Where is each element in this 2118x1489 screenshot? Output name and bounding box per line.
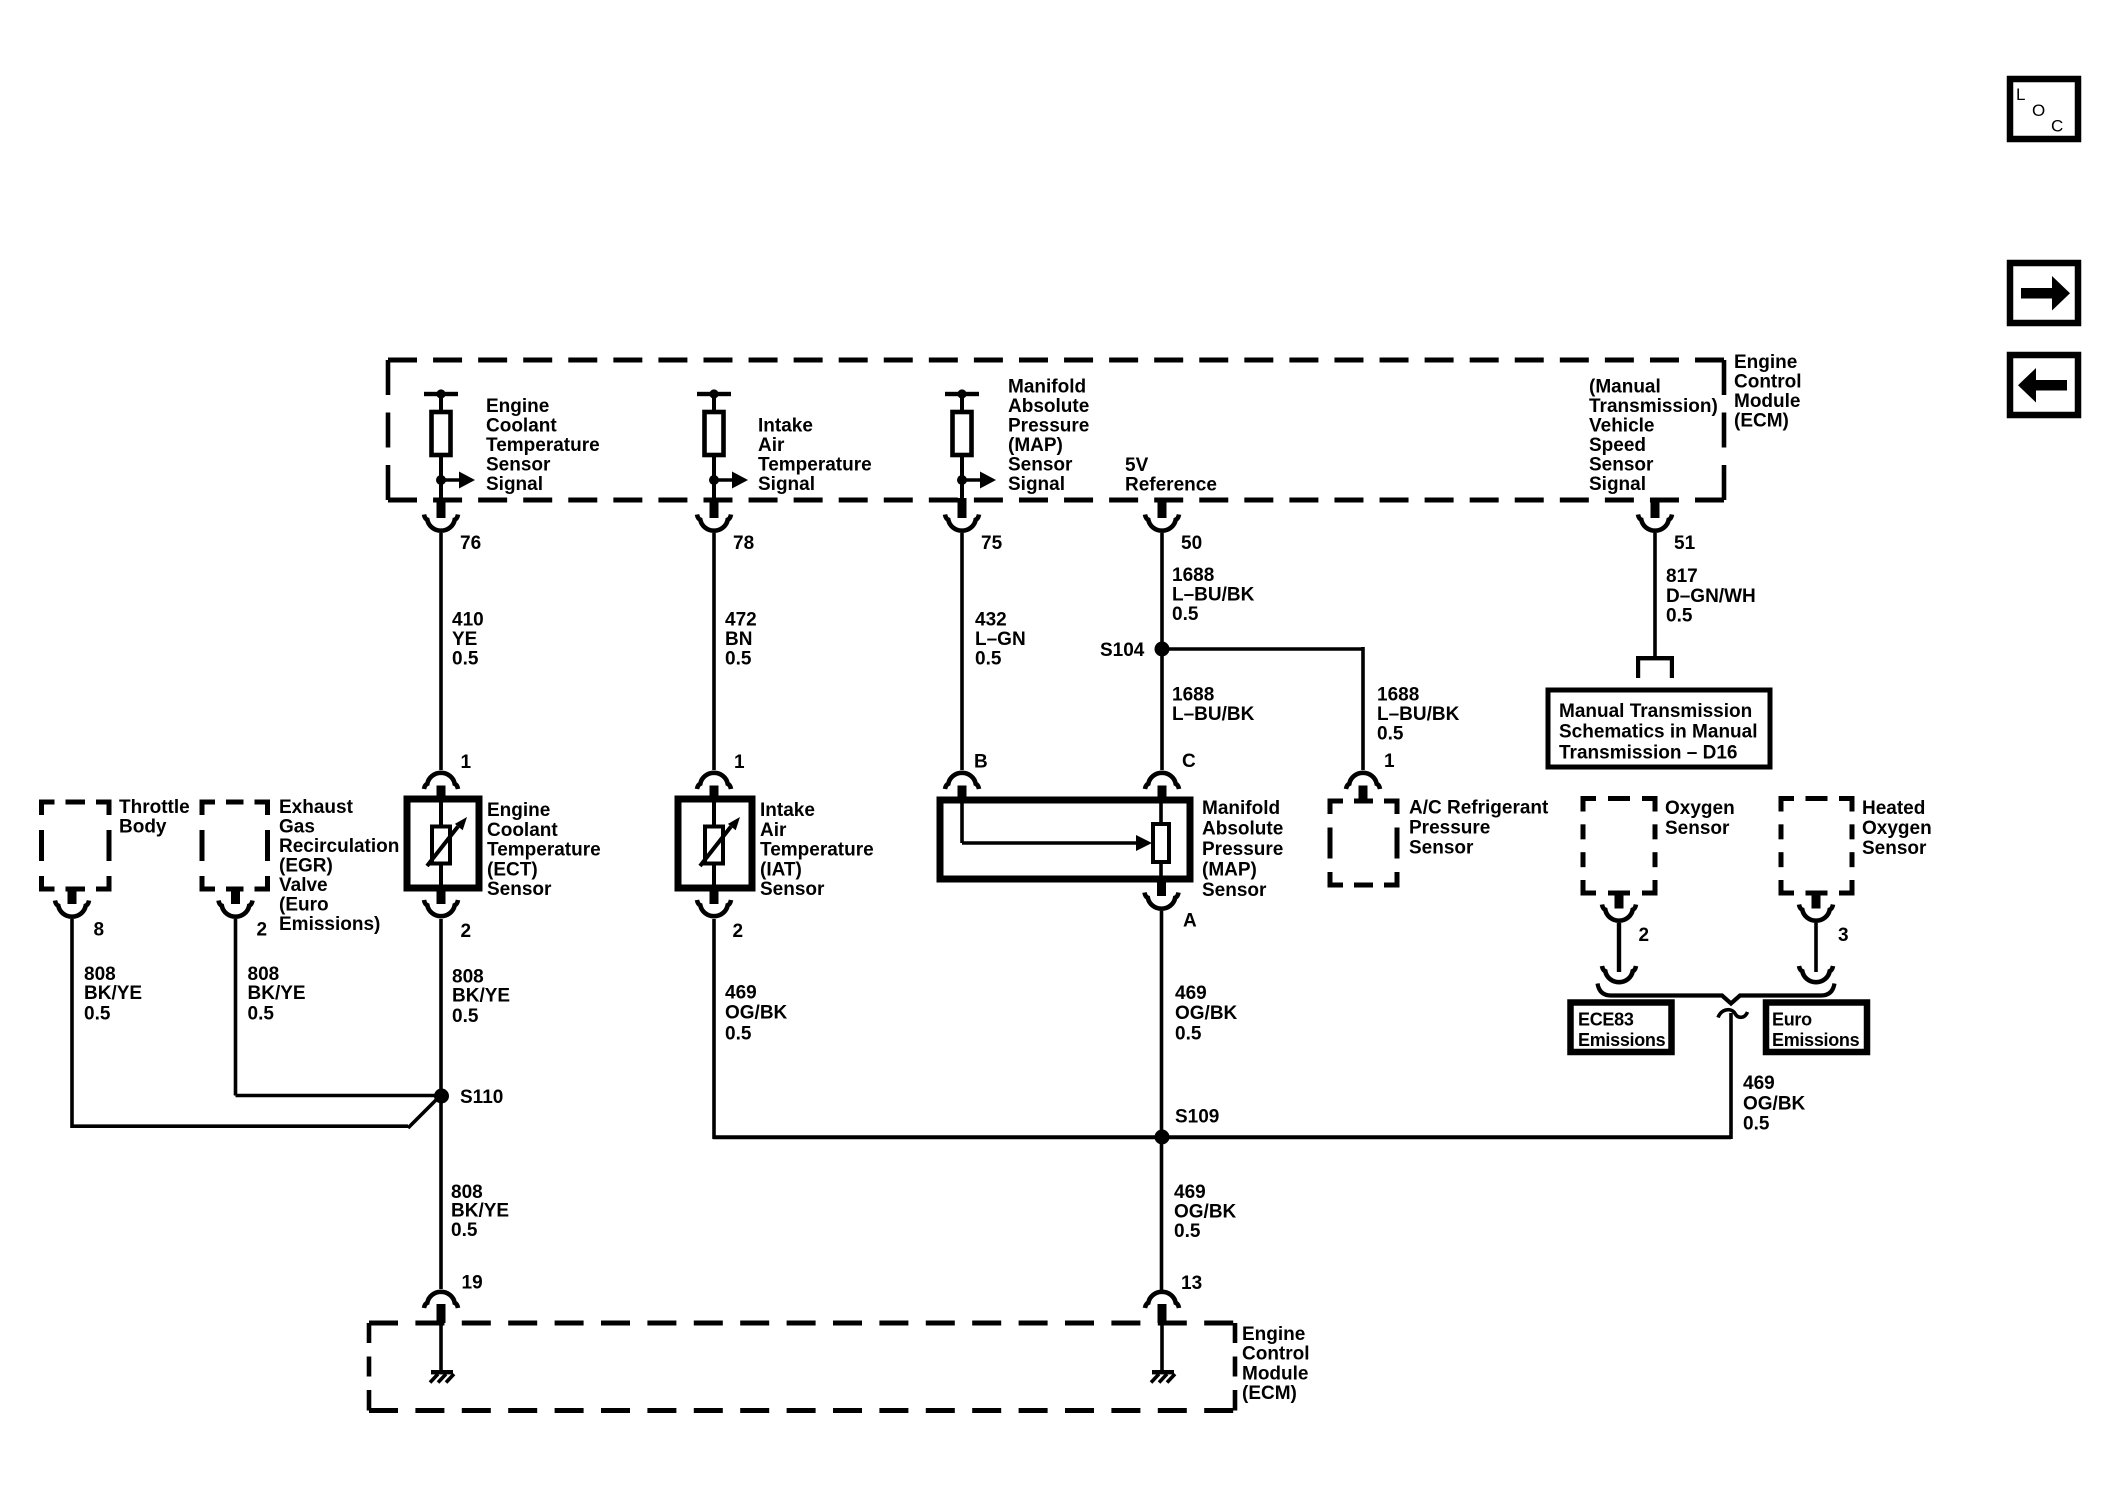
svg-text:Engine: Engine <box>487 800 550 821</box>
ECT sensor box <box>407 799 479 888</box>
ECM connector pin 76 <box>437 498 446 518</box>
heated oxygen sensor dashed box <box>1781 799 1794 812</box>
svg-text:Body: Body <box>119 817 167 838</box>
svg-text:0.5: 0.5 <box>1172 604 1199 625</box>
svg-text:Pressure: Pressure <box>1202 839 1283 860</box>
svg-text:0.5: 0.5 <box>452 1006 479 1027</box>
svg-text:C: C <box>1182 751 1196 772</box>
svg-text:Intake: Intake <box>760 800 815 821</box>
svg-text:Control: Control <box>1734 372 1802 393</box>
IAT connector pin 2 <box>710 888 719 904</box>
svg-text:Sensor: Sensor <box>1589 455 1654 476</box>
svg-text:0.5: 0.5 <box>725 1024 752 1045</box>
svg-text:Sensor: Sensor <box>1409 838 1474 859</box>
svg-text:0.5: 0.5 <box>248 1004 275 1025</box>
svg-text:Sensor: Sensor <box>1202 880 1267 901</box>
svg-text:469: 469 <box>1175 983 1207 1004</box>
wire 1688 L-BU/BK (pin 50 to S104) <box>1160 533 1164 770</box>
throttle body dashed box <box>42 802 55 815</box>
MAP signal resistor <box>945 389 996 498</box>
svg-text:0.5: 0.5 <box>451 1220 478 1241</box>
ground symbol left <box>430 1370 454 1383</box>
svg-text:Recirculation: Recirculation <box>279 836 399 857</box>
harness fork to manual transmission <box>1636 656 1674 660</box>
svg-text:0.5: 0.5 <box>1743 1114 1770 1135</box>
ECE83 emissions box <box>1571 1003 1672 1053</box>
ECM connector pin 51 <box>1651 498 1660 518</box>
svg-text:Emissions): Emissions) <box>279 914 380 935</box>
svg-text:Emissions: Emissions <box>1772 1030 1860 1050</box>
emissions option brace <box>1598 984 1835 1004</box>
svg-text:Reference: Reference <box>1125 475 1217 496</box>
wire 817 D-GN/WH (pin 51) <box>1653 533 1657 658</box>
svg-text:0.5: 0.5 <box>452 649 479 670</box>
wire 469 OG/BK bus S109 <box>713 1135 1731 1139</box>
wire 432 L-GN (pin 75 to MAP B) <box>960 533 964 770</box>
Euro emissions box <box>1766 1003 1867 1053</box>
svg-text:808: 808 <box>84 964 116 985</box>
A/C refrigerant pressure sensor dashed box <box>1330 801 1343 814</box>
sensor connector pin 1 x714 <box>697 773 731 789</box>
sensor connector pin 1 x1363 <box>1346 773 1380 789</box>
svg-text:5V: 5V <box>1125 455 1149 476</box>
svg-text:Oxygen: Oxygen <box>1862 818 1932 839</box>
svg-text:469: 469 <box>1743 1073 1775 1094</box>
svg-text:BN: BN <box>725 629 752 650</box>
MAP sensor box <box>940 800 1190 879</box>
svg-text:Absolute: Absolute <box>1202 819 1283 840</box>
svg-text:Valve: Valve <box>279 875 328 896</box>
svg-text:C: C <box>2051 117 2063 136</box>
ground wire pin 13 <box>1160 1323 1164 1370</box>
svg-text:Sensor: Sensor <box>1008 455 1073 476</box>
svg-text:Temperature: Temperature <box>760 840 874 861</box>
svg-text:ECE83: ECE83 <box>1578 1010 1634 1030</box>
wire S104 branch to A/C sensor <box>1160 647 1363 651</box>
svg-text:Module: Module <box>1734 391 1801 412</box>
back arrow box <box>2010 355 2078 415</box>
wire 410 YE (pin 76 to ECT) <box>439 533 443 770</box>
splice S109 <box>1155 1130 1170 1145</box>
svg-text:3: 3 <box>1838 925 1849 946</box>
wire 808 BK/YE from ECT <box>439 919 443 1289</box>
wire from heated oxygen sensor pin 3 <box>1814 923 1818 972</box>
svg-text:1688: 1688 <box>1172 685 1214 706</box>
forward arrow box <box>2010 263 2078 323</box>
svg-text:A: A <box>1183 911 1197 932</box>
sensor connector pin C x1162 <box>1145 773 1179 789</box>
svg-text:2: 2 <box>461 921 472 942</box>
svg-text:BK/YE: BK/YE <box>451 1201 509 1222</box>
EGR connector pin 2 <box>231 889 240 904</box>
svg-text:BK/YE: BK/YE <box>452 986 510 1007</box>
svg-text:OG/BK: OG/BK <box>1743 1094 1806 1115</box>
sensor connector pin B x962 <box>945 773 979 789</box>
svg-text:1688: 1688 <box>1377 685 1419 706</box>
svg-text:Schematics in Manual: Schematics in Manual <box>1559 722 1758 743</box>
sensor connector pin 1 x441 <box>424 773 458 789</box>
svg-text:Signal: Signal <box>758 474 815 495</box>
wire 469 OG/BK from IAT <box>712 919 716 1139</box>
svg-text:0.5: 0.5 <box>1174 1221 1201 1242</box>
svg-text:YE: YE <box>452 629 477 650</box>
svg-text:Intake: Intake <box>758 416 813 437</box>
svg-text:Signal: Signal <box>1589 474 1646 495</box>
svg-text:Engine: Engine <box>486 396 549 417</box>
svg-text:469: 469 <box>725 983 757 1004</box>
svg-text:75: 75 <box>981 533 1003 554</box>
ECT connector pin 2 <box>437 888 446 904</box>
svg-text:76: 76 <box>460 533 481 554</box>
svg-text:2: 2 <box>733 921 744 942</box>
svg-text:Throttle: Throttle <box>119 797 190 818</box>
svg-text:Transmission): Transmission) <box>1589 396 1718 417</box>
svg-text:469: 469 <box>1174 1182 1206 1203</box>
svg-text:Pressure: Pressure <box>1008 416 1089 437</box>
svg-text:Engine: Engine <box>1242 1324 1305 1345</box>
svg-text:Sensor: Sensor <box>487 879 552 900</box>
svg-text:Temperature: Temperature <box>758 455 872 476</box>
oxygen sensor dashed box <box>1583 799 1596 812</box>
ECM connector pin 50 <box>1158 498 1167 518</box>
svg-text:L–BU/BK: L–BU/BK <box>1172 704 1255 725</box>
svg-text:Coolant: Coolant <box>487 820 558 841</box>
svg-text:(IAT): (IAT) <box>760 860 802 881</box>
svg-text:A/C Refrigerant: A/C Refrigerant <box>1409 798 1549 819</box>
svg-text:(MAP): (MAP) <box>1202 860 1257 881</box>
manual transmission reference box <box>1548 690 1770 767</box>
svg-text:Sensor: Sensor <box>486 455 551 476</box>
svg-text:0.5: 0.5 <box>1377 724 1404 745</box>
svg-text:(MAP): (MAP) <box>1008 435 1063 456</box>
wire 469 OG/BK from MAP pin A <box>1160 911 1164 1291</box>
ground wire pin 19 <box>439 1323 443 1370</box>
svg-text:B: B <box>974 752 988 773</box>
svg-text:Pressure: Pressure <box>1409 818 1490 839</box>
svg-text:Engine: Engine <box>1734 352 1797 373</box>
oxygen sensor connector pin 2 <box>1615 893 1624 909</box>
IAT sensor box <box>678 799 752 888</box>
svg-text:O: O <box>2032 101 2045 120</box>
svg-text:Air: Air <box>758 435 785 456</box>
splice S110 <box>434 1089 449 1104</box>
heated oxygen sensor connector pin 3 <box>1812 893 1821 909</box>
svg-text:Absolute: Absolute <box>1008 396 1089 417</box>
svg-text:472: 472 <box>725 610 757 631</box>
svg-text:Control: Control <box>1242 1344 1310 1365</box>
svg-text:Heated: Heated <box>1862 798 1925 819</box>
svg-text:2: 2 <box>1639 925 1650 946</box>
svg-text:Emissions: Emissions <box>1578 1030 1666 1050</box>
svg-text:Sensor: Sensor <box>760 879 825 900</box>
svg-text:L–BU/BK: L–BU/BK <box>1172 585 1255 606</box>
svg-text:1: 1 <box>461 752 472 773</box>
svg-text:50: 50 <box>1181 533 1202 554</box>
option squiggle <box>1718 1010 1748 1018</box>
svg-text:19: 19 <box>462 1273 483 1294</box>
MAP sensor internals <box>960 803 964 843</box>
svg-text:(Manual: (Manual <box>1589 377 1661 398</box>
wire 472 BN (pin 78 to IAT) <box>712 533 716 770</box>
LOC reference box <box>2010 79 2078 139</box>
svg-text:817: 817 <box>1666 566 1698 587</box>
svg-text:808: 808 <box>248 964 280 985</box>
svg-text:L: L <box>2016 85 2025 104</box>
svg-text:(ECM): (ECM) <box>1734 411 1789 432</box>
svg-text:Transmission – D16: Transmission – D16 <box>1559 742 1737 763</box>
ECM top dashed box <box>388 358 1724 363</box>
svg-text:Speed: Speed <box>1589 435 1646 456</box>
svg-text:S109: S109 <box>1175 1107 1219 1128</box>
svg-text:Temperature: Temperature <box>487 840 601 861</box>
svg-text:432: 432 <box>975 610 1007 631</box>
svg-text:808: 808 <box>452 967 484 988</box>
svg-text:Temperature: Temperature <box>486 435 600 456</box>
svg-text:Signal: Signal <box>1008 474 1065 495</box>
svg-text:BK/YE: BK/YE <box>248 983 306 1004</box>
svg-text:Euro: Euro <box>1772 1010 1812 1030</box>
svg-text:Vehicle: Vehicle <box>1589 416 1655 437</box>
svg-text:Sensor: Sensor <box>1665 818 1730 839</box>
wire 808 BK/YE from throttle body <box>70 919 74 1128</box>
svg-text:Gas: Gas <box>279 817 315 838</box>
ECM bottom dashed box <box>369 1321 1235 1326</box>
throttle body connector pin 8 <box>68 889 77 904</box>
svg-text:Coolant: Coolant <box>486 416 557 437</box>
ground symbol right <box>1151 1370 1175 1383</box>
svg-text:(ECM): (ECM) <box>1242 1383 1297 1404</box>
svg-text:S110: S110 <box>460 1087 503 1108</box>
wire 808 BK/YE from EGR <box>234 919 238 1096</box>
svg-text:S104: S104 <box>1100 640 1145 661</box>
svg-text:51: 51 <box>1674 533 1696 554</box>
svg-text:L–BU/BK: L–BU/BK <box>1377 704 1460 725</box>
svg-text:1688: 1688 <box>1172 565 1214 586</box>
splice S104 <box>1155 642 1170 657</box>
MAP connector pin A <box>1157 879 1166 896</box>
ECT signal resistor <box>424 389 475 498</box>
svg-text:(ECT): (ECT) <box>487 860 538 881</box>
svg-text:OG/BK: OG/BK <box>725 1003 788 1024</box>
svg-text:0.5: 0.5 <box>975 649 1002 670</box>
svg-text:2: 2 <box>257 920 268 941</box>
EGR valve dashed box <box>202 802 215 815</box>
svg-text:L–GN: L–GN <box>975 629 1026 650</box>
wire 469 OG/BK from emissions brace <box>1729 1013 1733 1139</box>
svg-text:(EGR): (EGR) <box>279 856 333 877</box>
svg-text:Signal: Signal <box>486 474 543 495</box>
svg-text:Air: Air <box>760 820 787 841</box>
svg-text:BK/YE: BK/YE <box>84 983 142 1004</box>
svg-text:OG/BK: OG/BK <box>1175 1003 1238 1024</box>
svg-text:Manifold: Manifold <box>1008 377 1086 398</box>
svg-text:OG/BK: OG/BK <box>1174 1202 1237 1223</box>
svg-text:D–GN/WH: D–GN/WH <box>1666 586 1756 607</box>
ECM connector pin 75 <box>958 498 967 518</box>
svg-text:1: 1 <box>734 752 745 773</box>
svg-text:13: 13 <box>1181 1273 1202 1294</box>
svg-text:410: 410 <box>452 610 484 631</box>
svg-text:1: 1 <box>1384 751 1395 772</box>
svg-text:0.5: 0.5 <box>1666 606 1693 627</box>
svg-text:8: 8 <box>94 920 105 941</box>
svg-text:Manifold: Manifold <box>1202 798 1280 819</box>
svg-text:Exhaust: Exhaust <box>279 797 354 818</box>
svg-text:Sensor: Sensor <box>1862 838 1927 859</box>
svg-text:0.5: 0.5 <box>1175 1024 1202 1045</box>
svg-text:78: 78 <box>733 533 754 554</box>
wire from oxygen sensor pin 2 <box>1617 923 1621 972</box>
svg-text:0.5: 0.5 <box>84 1004 111 1025</box>
svg-text:Manual Transmission: Manual Transmission <box>1559 701 1752 722</box>
svg-text:Module: Module <box>1242 1364 1309 1385</box>
svg-text:0.5: 0.5 <box>725 649 752 670</box>
ECM connector pin 78 <box>710 498 719 518</box>
IAT signal resistor <box>697 389 748 498</box>
svg-text:Oxygen: Oxygen <box>1665 798 1735 819</box>
svg-text:(Euro: (Euro <box>279 895 329 916</box>
